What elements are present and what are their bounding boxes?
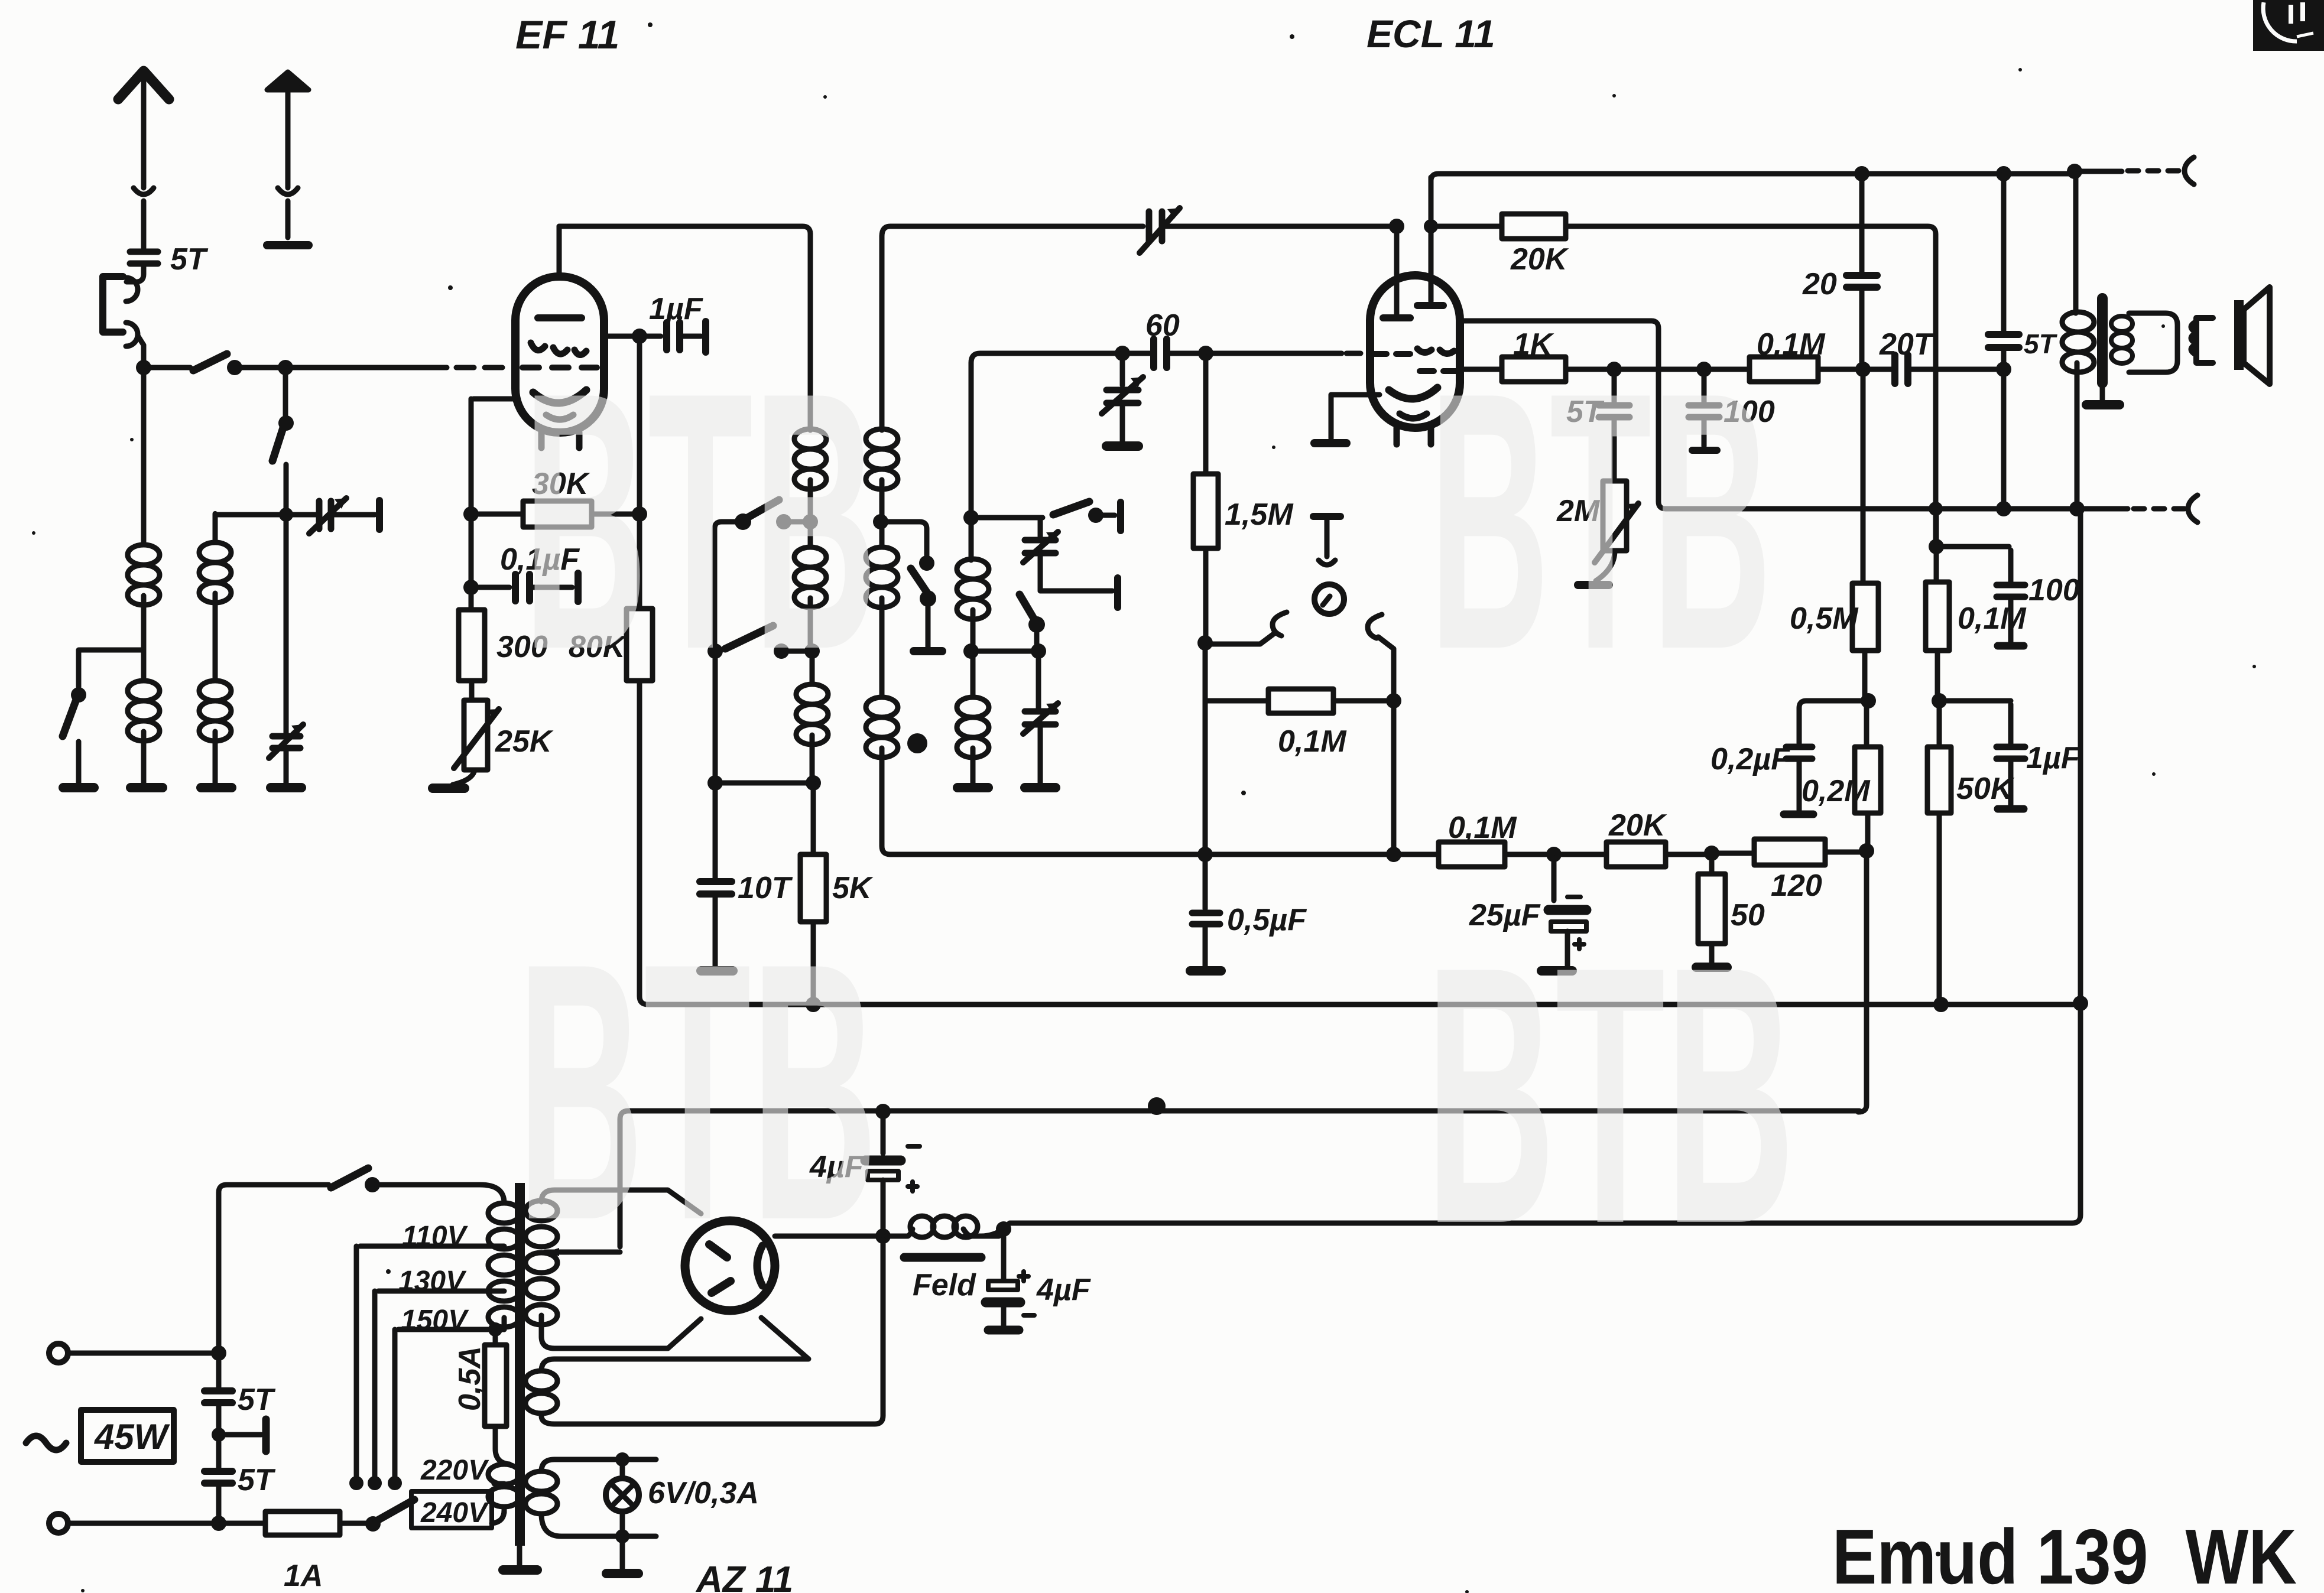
resistor 0,5M <box>1852 583 1878 651</box>
speaker magnet bar <box>2234 300 2244 370</box>
node cathode <box>463 506 479 522</box>
switch S8 <box>1020 594 1035 620</box>
wire <box>141 371 147 545</box>
antenna <box>118 71 169 99</box>
ground S2 <box>63 783 94 792</box>
ECL11 triode anode <box>1394 230 1400 314</box>
coil L3a <box>794 429 826 489</box>
EF11 control grid dashes <box>522 365 597 370</box>
resistor 80K <box>627 609 653 681</box>
switch S6 tap <box>884 522 927 558</box>
svg-text:Feld: Feld <box>913 1268 976 1302</box>
switch S1 antenna <box>193 354 227 370</box>
svg-text:0,2µF: 0,2µF <box>1710 742 1790 776</box>
capacitor 25uF electrolytic <box>1552 858 1557 900</box>
node grid line <box>136 360 151 375</box>
svg-text:220V: 220V <box>420 1455 489 1486</box>
capacitor 5T mains lower <box>216 1438 222 1468</box>
coil L2b <box>199 681 231 741</box>
wire pentode grid to 1K <box>1460 367 1502 372</box>
capacitor 100 <box>1702 373 1707 402</box>
capacitor 1uF right <box>1943 698 2011 704</box>
resistor 0,2M <box>1855 747 1881 813</box>
fuse 0,5A <box>493 1329 498 1345</box>
tap 130V <box>378 1289 504 1294</box>
svg-text:BTB: BTB <box>523 317 878 726</box>
ECL11 pentode grid <box>1420 368 1459 374</box>
coil L5a <box>969 518 974 560</box>
wire EF11 cathode left <box>471 399 517 508</box>
wire L2 top <box>213 513 218 542</box>
capacitor 5T mains upper <box>216 1357 222 1387</box>
ECL11 pins <box>1397 428 1431 444</box>
earth terminal bar <box>267 241 309 249</box>
transformer core <box>515 1183 525 1546</box>
earth plug connector <box>278 188 298 194</box>
svg-text:0,2M: 0,2M <box>1802 774 1871 808</box>
ground 25uF <box>1541 966 1572 976</box>
wire phono contact <box>1209 633 1274 644</box>
resistor 300 <box>469 591 474 610</box>
EF11 cathode <box>533 390 586 403</box>
wire tap line <box>215 512 316 518</box>
resistor 0,1M right <box>1934 512 1939 582</box>
node 1uF junction <box>632 329 647 344</box>
earth counterpoise <box>267 72 309 90</box>
resistor 1,5M <box>1203 357 1209 474</box>
wire terminal row <box>1040 589 1112 594</box>
ground 0,5uF <box>1190 966 1221 976</box>
coil L5b <box>971 651 976 697</box>
ground trimmer <box>1025 783 1056 792</box>
switch S7 <box>1053 502 1089 515</box>
wire <box>141 201 147 248</box>
capacitor 4uF first <box>881 1115 886 1153</box>
switch S4 band <box>735 513 751 530</box>
svg-text:0,5µF: 0,5µF <box>1227 903 1307 937</box>
wire column S3 <box>283 371 288 418</box>
mains terminal N <box>49 1514 68 1533</box>
svg-text:ECL 11: ECL 11 <box>1367 12 1495 56</box>
svg-text:5T: 5T <box>238 1383 276 1417</box>
svg-text:5T: 5T <box>238 1463 276 1497</box>
ground trimmer det <box>1106 441 1138 451</box>
wire EF11 plate line <box>559 226 810 429</box>
transformer heater secondary <box>525 1371 557 1413</box>
corner logo <box>2253 0 2324 51</box>
wire <box>138 336 144 364</box>
wire screen feed <box>637 340 642 609</box>
ECL11 triode grid <box>1372 351 1410 357</box>
AZ11 filament marks <box>709 1244 731 1293</box>
transformer primary lower <box>488 1464 520 1507</box>
node bus joins <box>2073 996 2088 1011</box>
tube ECL11 <box>1370 275 1460 428</box>
wire <box>126 266 144 282</box>
output transformer core <box>2097 298 2108 383</box>
svg-text:45W: 45W <box>94 1417 170 1457</box>
svg-text:BTB: BTB <box>1426 891 1795 1300</box>
coil L2a <box>199 542 231 603</box>
speaker cone <box>2244 287 2270 384</box>
switch S5 band <box>725 626 773 649</box>
svg-text:1,5M: 1,5M <box>1225 498 1294 532</box>
output transformer secondary <box>2111 316 2133 363</box>
wire <box>285 201 291 238</box>
wire HT center tap <box>545 1250 620 1255</box>
antenna plug connector <box>134 188 154 194</box>
capacitor 10T <box>713 783 718 878</box>
coil L4c <box>866 697 898 758</box>
bus B- chassis rail <box>620 1111 1859 1247</box>
capacitor 1uF <box>667 323 680 350</box>
tube EF11 <box>515 277 604 433</box>
resistor 50 <box>1709 857 1715 874</box>
resistor 30K <box>473 512 523 517</box>
node core dot <box>907 733 927 753</box>
wire heater AZ11 <box>554 1318 809 1359</box>
svg-text:1µF: 1µF <box>2026 741 2080 775</box>
ECL11 pentode anode <box>1429 177 1434 301</box>
potentiometer 25K <box>464 700 488 770</box>
resistor 0,1M AVC <box>1439 842 1505 867</box>
ground L2 <box>201 783 232 792</box>
resistor 20K AVC <box>1606 842 1666 867</box>
ground ECL11 cathode <box>1314 439 1346 447</box>
terminal bar <box>376 500 383 529</box>
svg-text:100: 100 <box>2028 573 2080 607</box>
capacitor 5T antenna <box>130 252 158 264</box>
mains terminal L <box>49 1344 68 1363</box>
switch voltage selector <box>376 1500 414 1521</box>
wire row <box>975 515 1043 521</box>
wire anode 2 <box>541 1319 701 1348</box>
tap 110V <box>360 1244 504 1249</box>
transformer HT secondary <box>525 1201 557 1325</box>
svg-text:150V: 150V <box>401 1305 469 1336</box>
svg-text:0,1M: 0,1M <box>1448 811 1517 845</box>
ground 10T <box>701 966 733 976</box>
contact hook <box>1273 612 1287 636</box>
IF transformer 1 secondary column <box>882 226 1143 236</box>
ground L5 <box>957 783 988 792</box>
svg-text:0,5M: 0,5M <box>1790 602 1859 636</box>
ground S3 <box>271 783 301 792</box>
svg-text:Emud 139 WK: Emud 139 WK <box>1832 1513 2297 1593</box>
svg-text:EF 11: EF 11 <box>515 12 619 57</box>
EF11 anode bar <box>538 314 582 321</box>
capacitor 0,2uF <box>1799 701 1865 743</box>
speaker voice coil <box>2196 318 2213 363</box>
transformer primary upper <box>488 1203 520 1327</box>
trimmer capacitor C-ant2 <box>272 736 300 748</box>
ground 4uF <box>988 1326 1019 1335</box>
capacitor 4uF second <box>1001 1233 1007 1280</box>
coil L1b <box>128 681 160 741</box>
wire grid to EF11 <box>289 365 447 370</box>
coil L4a <box>879 236 885 430</box>
coil L1a <box>128 545 160 605</box>
ECL11 screen <box>1417 349 1454 354</box>
resistor 5K <box>811 783 816 854</box>
ground lamp <box>606 1569 638 1578</box>
svg-text:20: 20 <box>1802 267 1837 301</box>
svg-text:25K: 25K <box>495 724 554 759</box>
wire pentode screen line <box>1460 321 2000 509</box>
svg-text:50K: 50K <box>1956 772 2015 806</box>
capacitor 0,5uF <box>1203 858 1208 909</box>
tap 220V <box>494 1481 504 1487</box>
IF transformer 1 primary column <box>808 234 813 430</box>
AC symbol <box>26 1436 66 1450</box>
svg-text:BTB: BTB <box>1429 317 1772 726</box>
pickup terminal <box>1313 513 1340 520</box>
resistor 50K <box>1937 701 1942 747</box>
resistor 1K <box>1502 357 1566 382</box>
coil Feld <box>887 1234 907 1239</box>
ground L1 <box>131 783 163 792</box>
svg-text:240V: 240V <box>420 1497 489 1529</box>
svg-text:4µF: 4µF <box>1036 1273 1091 1307</box>
capacitor 100 right <box>1940 544 2009 550</box>
switch mains <box>331 1168 368 1188</box>
lamp 6V 0,3A <box>620 1459 625 1478</box>
svg-text:BTB: BTB <box>517 887 878 1296</box>
resistor 20K top <box>1424 219 1438 233</box>
svg-text:110V: 110V <box>402 1221 469 1252</box>
switch S2 <box>63 700 76 736</box>
capacitor 20 <box>1859 174 1865 272</box>
top bus <box>1439 171 1856 177</box>
switch S3 <box>272 428 283 461</box>
ground 50 <box>1696 963 1727 972</box>
variable capacitor padder <box>1149 212 1162 241</box>
resistor 120 <box>1754 839 1825 865</box>
trimmer capacitor IF2 <box>1038 518 1043 537</box>
trimmer capacitor det <box>1120 357 1125 385</box>
tube AZ11 <box>685 1221 775 1311</box>
tap 150V <box>398 1327 504 1332</box>
wire B+ rail right <box>1010 512 2080 1223</box>
capacitor 0,1uF <box>475 585 509 590</box>
ECL11 cathode <box>1389 388 1437 399</box>
output transformer primary <box>2073 175 2079 313</box>
wire anode 1 <box>541 1190 701 1214</box>
speaker wire loop <box>2129 313 2177 372</box>
contact hook 2 <box>1368 615 1382 638</box>
ground core <box>2086 400 2119 409</box>
tap 240V <box>492 1510 504 1523</box>
resistor 0,1M <box>1750 357 1818 382</box>
svg-text:20K: 20K <box>1608 808 1667 843</box>
capacitor 5T cathode <box>1612 373 1617 402</box>
capacitor 5T output <box>2001 177 2007 331</box>
ground 25K <box>433 784 465 793</box>
svg-text:0,1M: 0,1M <box>1278 724 1347 759</box>
svg-text:130V: 130V <box>398 1266 467 1297</box>
wire <box>713 651 718 783</box>
svg-text:1A: 1A <box>284 1559 323 1593</box>
svg-text:60: 60 <box>1145 308 1180 343</box>
box 240V selector <box>411 1491 492 1528</box>
coil L3b <box>808 522 813 547</box>
fuse 1A <box>222 1521 265 1526</box>
pickup jack <box>1314 584 1344 614</box>
wire mains riser <box>219 1185 329 1350</box>
node right vertical column <box>1861 693 1876 708</box>
resistor 0,1M feedback <box>1205 698 1268 704</box>
wire cathode to ground <box>1331 395 1380 438</box>
svg-text:AZ 11: AZ 11 <box>695 1559 793 1593</box>
aerial socket bracket <box>103 277 123 332</box>
svg-text:5T: 5T <box>2024 329 2058 359</box>
wire to wave switch <box>79 650 144 690</box>
IF transformer 2 primary column <box>971 353 1118 514</box>
capacitor 60 <box>1154 339 1167 368</box>
node 60 line <box>1115 346 1130 361</box>
svg-text:0,1M: 0,1M <box>1958 602 2027 636</box>
ground transformer core <box>503 1565 537 1575</box>
potentiometer 2M <box>1603 481 1627 551</box>
node screen <box>632 506 647 522</box>
capacitor 20T <box>1895 355 1908 383</box>
transformer 6V secondary <box>541 1459 656 1471</box>
coil L3c <box>810 651 815 684</box>
wire cathode out <box>775 1234 879 1239</box>
svg-text:0,5A: 0,5A <box>453 1346 487 1411</box>
AZ11 cathode arc <box>757 1246 762 1286</box>
ground 2M <box>1578 581 1609 589</box>
AVC line <box>890 852 1439 857</box>
EF11 screen grid <box>531 343 586 355</box>
coil L4b <box>879 522 885 547</box>
variable capacitor antenna trimmer <box>319 501 331 529</box>
box 45W <box>81 1410 174 1462</box>
EF11 pins <box>541 433 579 448</box>
chassis stub <box>219 1432 261 1438</box>
svg-text:5T: 5T <box>170 242 209 277</box>
svg-text:6V/0,3A: 6V/0,3A <box>648 1476 759 1510</box>
svg-text:20K: 20K <box>1510 242 1569 277</box>
svg-text:20T: 20T <box>1879 327 1935 362</box>
bus B+ screen rail <box>648 1002 2078 1007</box>
trimmer capacitor IF2b <box>1036 651 1041 708</box>
